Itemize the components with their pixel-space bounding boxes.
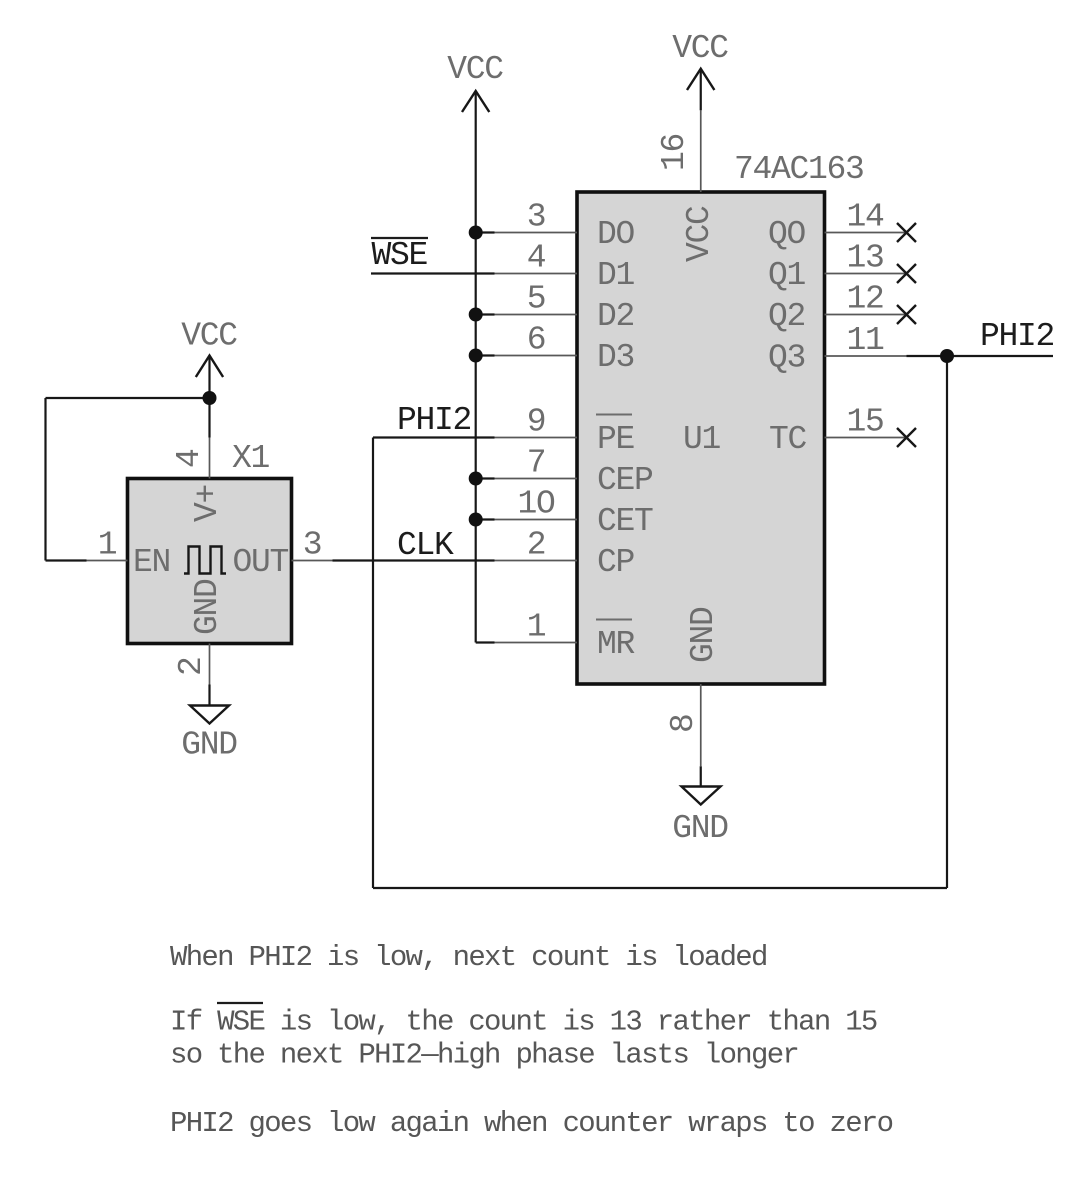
- svg-text:9: 9: [527, 404, 546, 441]
- junction: VCC node above X1: [203, 391, 217, 405]
- svg-text:CET: CET: [597, 503, 653, 540]
- wire: bus stub to D0: [476, 231, 495, 233]
- U1 pin 6 D3: [495, 322, 635, 377]
- no-connect X on TC: [897, 428, 916, 447]
- svg-text:D3: D3: [597, 339, 634, 376]
- U1 pin 16 VCC: [656, 110, 718, 262]
- wire: VCC bus to MR pin: [476, 641, 495, 643]
- svg-text:PE: PE: [597, 421, 635, 458]
- U1 pin 3 D0: [495, 199, 635, 254]
- svg-text:4: 4: [527, 240, 546, 277]
- svg-text:Q1: Q1: [768, 257, 806, 294]
- U1 reference designator: [683, 421, 721, 458]
- U1 pin 14 Q0: [768, 199, 907, 254]
- X1 clock waveform glyph: [184, 547, 226, 574]
- svg-text:CEP: CEP: [597, 462, 653, 499]
- wire: PHI2 to U1 PE: [373, 436, 495, 438]
- net label PHI2 (at Q3): [980, 318, 1054, 355]
- svg-text:5: 5: [527, 281, 546, 318]
- svg-text:16: 16: [656, 134, 693, 171]
- U1 pin 11 Q3: [768, 322, 907, 377]
- svg-text:2: 2: [173, 657, 210, 676]
- svg-text:D2: D2: [597, 298, 634, 335]
- wire: PHI2 feedback right vertical: [946, 356, 948, 888]
- svg-text:V+: V+: [189, 485, 226, 522]
- svg-text:GND: GND: [672, 810, 728, 847]
- svg-text:14: 14: [846, 199, 884, 236]
- note line 1: [170, 941, 767, 974]
- svg-text:OUT: OUT: [232, 544, 288, 581]
- svg-text:GND: GND: [181, 727, 237, 764]
- U1 pin 8 GND: [665, 607, 722, 766]
- power symbol GND (below U1 pin 8): [672, 766, 728, 847]
- U1 pin 13 Q1: [768, 240, 907, 295]
- junction: bus at CET: [469, 513, 483, 527]
- power symbol GND (below X1 pin 2): [181, 685, 237, 764]
- wire: EN feedback bottom segment to pin 1: [46, 559, 87, 561]
- power symbol VCC (above U1 pin 16): [672, 30, 728, 110]
- wire: bus stub to D2: [476, 313, 495, 315]
- svg-text:8: 8: [665, 714, 702, 733]
- note line 2 with WSE overline: [170, 1003, 877, 1039]
- no-connect X on Q2: [897, 305, 916, 324]
- svg-text:3: 3: [527, 199, 546, 236]
- svg-text:MR: MR: [597, 626, 635, 663]
- wire: VCC to X1 pin 4: [208, 398, 210, 438]
- svg-text:74AC163: 74AC163: [734, 151, 864, 188]
- X1 pin 3 OUT: [232, 527, 332, 582]
- svg-text:GND: GND: [189, 579, 226, 635]
- svg-text:EN: EN: [133, 544, 170, 581]
- junction: bus at D0: [469, 226, 483, 240]
- svg-text:Q3: Q3: [768, 340, 805, 377]
- svg-text:3: 3: [303, 527, 322, 564]
- U1 pin 5 D2: [495, 281, 635, 336]
- junction: Q3 / PHI2 node: [940, 349, 954, 363]
- no-connect X on Q1: [897, 264, 916, 283]
- X1 pin 4 V+: [171, 438, 226, 523]
- junction: bus at D2: [469, 308, 483, 322]
- svg-text:GND: GND: [685, 607, 722, 663]
- U1 pin 9 PE (active low): [495, 404, 635, 459]
- svg-text:7: 7: [527, 445, 546, 482]
- svg-text:When PHI2 is low, next count i: When PHI2 is low, next count is loaded: [170, 941, 767, 974]
- wire: EN feedback left vertical: [44, 398, 46, 561]
- wire: EN feedback top segment: [46, 397, 210, 399]
- svg-text:13: 13: [846, 240, 883, 277]
- net label PHI2 (at PE): [397, 402, 471, 439]
- svg-text:so the next PHI2—high phase la: so the next PHI2—high phase lasts longer: [170, 1039, 798, 1072]
- wire: PHI2 feedback left vertical: [372, 438, 374, 889]
- counter U1 74AC163: [577, 192, 825, 684]
- svg-text:6: 6: [527, 322, 546, 359]
- svg-text:Q2: Q2: [768, 298, 805, 335]
- note line 3: [170, 1039, 798, 1072]
- net label WSE (active low): [371, 237, 428, 274]
- svg-text:2: 2: [527, 527, 546, 564]
- wire: WSE to U1 D1: [371, 272, 495, 274]
- wire: bus stub to CEP: [476, 477, 495, 479]
- svg-text:X1: X1: [232, 440, 270, 477]
- svg-text:PHI2: PHI2: [397, 402, 471, 439]
- U1 pin 7 CEP: [495, 445, 654, 500]
- U1 pin 12 Q2: [768, 281, 907, 336]
- svg-text:QO: QO: [768, 216, 806, 253]
- svg-text:PHI2: PHI2: [980, 318, 1054, 355]
- oscillator X1: [128, 479, 292, 644]
- X1 pin 1 EN: [87, 527, 171, 582]
- U1 pin 10 CET: [495, 486, 654, 541]
- svg-text:DO: DO: [597, 216, 635, 253]
- wire: bus stub to CET: [476, 518, 495, 520]
- no-connect X on Q0: [897, 223, 916, 242]
- U1 pin 1 MR (active low): [495, 609, 635, 664]
- svg-text:VCC: VCC: [181, 318, 237, 355]
- wire: VCC bus vertical: [475, 132, 477, 643]
- U1 pin 4 D1: [495, 240, 635, 295]
- svg-text:1: 1: [98, 527, 117, 564]
- svg-text:11: 11: [846, 322, 884, 359]
- net label CLK: [397, 527, 454, 564]
- svg-text:VCC: VCC: [447, 51, 503, 88]
- svg-text:U1: U1: [683, 421, 721, 458]
- power symbol VCC (left bus): [447, 51, 503, 132]
- wire: bus stub to D3: [476, 354, 495, 356]
- note line 4: [170, 1107, 893, 1140]
- wire: CLK from X1 OUT to U1 CP: [333, 559, 495, 561]
- svg-text:If WSE is low, the count is 13: If WSE is low, the count is 13 rather th…: [170, 1006, 877, 1039]
- X1 reference designator: [232, 440, 270, 477]
- svg-text:PHI2 goes low again when count: PHI2 goes low again when counter wraps t…: [170, 1107, 893, 1140]
- wire: PHI2 feedback bottom segment: [373, 887, 947, 889]
- junction: bus at CEP: [469, 472, 483, 486]
- U1 value label 74AC163: [734, 151, 864, 188]
- U1 pin 15 TC: [769, 404, 907, 459]
- svg-text:D1: D1: [597, 257, 635, 294]
- svg-text:CLK: CLK: [397, 527, 454, 564]
- svg-text:WSE: WSE: [372, 237, 428, 274]
- svg-text:1: 1: [527, 609, 546, 646]
- svg-text:CP: CP: [597, 544, 635, 581]
- X1 pin 2 GND: [173, 579, 226, 685]
- svg-text:VCC: VCC: [681, 206, 718, 262]
- wire: Q3 to PHI2 label: [907, 355, 1054, 357]
- junction: bus at D3: [469, 349, 483, 363]
- svg-text:15: 15: [846, 404, 883, 441]
- svg-text:TC: TC: [769, 421, 807, 458]
- svg-text:4: 4: [171, 449, 208, 468]
- U1 pin 2 CP: [495, 527, 635, 582]
- power symbol VCC (above X1): [181, 318, 237, 399]
- svg-text:VCC: VCC: [672, 30, 728, 67]
- svg-text:12: 12: [846, 281, 883, 318]
- svg-text:1O: 1O: [517, 486, 555, 523]
